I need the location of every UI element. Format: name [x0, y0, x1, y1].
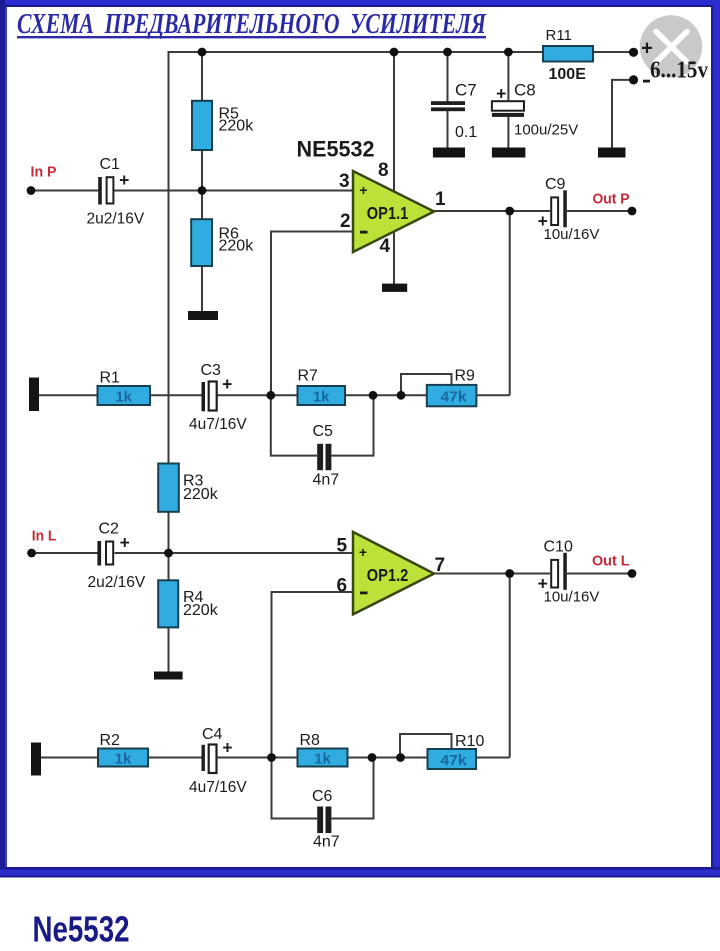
resistor R9 — [427, 385, 477, 406]
svg-text:C10: C10 — [544, 539, 573, 556]
svg-text:1k: 1k — [115, 751, 132, 768]
svg-text:C1: C1 — [100, 156, 121, 173]
svg-text:Ne5532: Ne5532 — [33, 909, 130, 950]
node OP1.1 feedback junction — [505, 207, 514, 216]
svg-text:2: 2 — [340, 211, 351, 232]
wire pin 2 loop to C3/R7 node — [271, 232, 353, 396]
node rail-C7 junction — [443, 48, 452, 57]
label C1 value — [87, 156, 145, 228]
close button — [640, 15, 702, 77]
resistor R1 — [98, 386, 151, 406]
svg-text:4n7: 4n7 — [313, 834, 340, 851]
frame left — [0, 0, 5, 877]
wire C8 branch upper — [507, 52, 509, 102]
capacitor C10 — [538, 553, 567, 594]
svg-text:4n7: 4n7 — [313, 472, 340, 489]
wire pin 6 loop to C4/R8 node — [272, 592, 354, 758]
svg-text:+: + — [359, 544, 367, 560]
capacitor C4 — [202, 737, 233, 773]
label C5 value — [313, 423, 340, 489]
svg-text:4u7/16V: 4u7/16V — [189, 416, 247, 433]
resistor R6 — [191, 219, 212, 266]
svg-text:+: + — [222, 737, 232, 757]
wire output OP1.2 to C10 — [434, 573, 550, 575]
frame bottom — [0, 867, 720, 870]
frame right — [711, 7, 713, 867]
wire C8 branch lower — [507, 117, 509, 149]
node R3-R4 bias junction — [164, 549, 173, 558]
svg-text:OP1.1: OP1.1 — [367, 203, 409, 223]
svg-text:220k: 220k — [219, 118, 255, 135]
label minus terminal — [643, 80, 650, 83]
wire minus terminal branch — [612, 80, 630, 148]
node Out P terminal — [628, 207, 637, 216]
svg-text:In L: In L — [32, 527, 57, 544]
capacitor C3 — [202, 374, 233, 411]
wire C6 loop right — [332, 758, 374, 819]
svg-text:2u2/16V: 2u2/16V — [88, 574, 146, 591]
wire In P row C1 to pin 3 — [114, 190, 353, 192]
resistor R5 — [192, 101, 212, 150]
ground under R6 — [188, 311, 218, 320]
svg-text:C8: C8 — [514, 81, 536, 100]
label C7 value — [455, 81, 477, 142]
svg-text:R11: R11 — [546, 27, 572, 44]
svg-text:2u2/16V: 2u2/16V — [87, 211, 145, 228]
svg-text:In P: In P — [31, 164, 57, 181]
node R7-R9 junction b — [397, 391, 406, 400]
wire R1 row left of C3 — [39, 394, 202, 396]
node In P terminal — [27, 186, 36, 195]
capacitor C1 — [98, 170, 129, 205]
label R4 value — [183, 589, 219, 619]
label C2 value — [88, 521, 146, 592]
resistor R2 — [98, 749, 148, 768]
node minus supply terminal — [629, 75, 638, 84]
svg-text:1k: 1k — [313, 389, 330, 406]
ground under R4 — [154, 672, 183, 680]
node C3-R7 junction — [266, 391, 275, 400]
capacitor C2 — [97, 533, 130, 566]
label C8 value — [514, 81, 578, 139]
title СХЕМА ПРЕДВАРИТЕЛЬНОГО УСИЛИТЕЛЯ — [17, 8, 487, 40]
wire In L row left of C2 — [32, 552, 98, 554]
input terminal bar right channel — [29, 378, 39, 412]
node rail-C8 junction — [504, 48, 513, 57]
node rail-R5 junction — [198, 48, 207, 57]
wire feedback vertical OP1.2 — [509, 574, 511, 758]
wire R2 row C4 to feedback column — [217, 757, 510, 759]
wire C7 branch lower — [447, 111, 449, 149]
label C9 value — [544, 176, 600, 243]
svg-text:R10: R10 — [455, 733, 484, 750]
wire R1 row C3 to feedback column — [217, 394, 510, 396]
label C4 value — [189, 726, 247, 796]
resistor R4 — [158, 580, 178, 627]
node R8-R10 junction b — [396, 753, 405, 762]
node R7-R9 junction a — [369, 391, 378, 400]
wire C9 to Out P — [567, 210, 632, 212]
svg-text:C2: C2 — [99, 521, 120, 538]
node OP1.2 feedback junction — [505, 569, 514, 578]
wire In P row left of C1 — [31, 190, 99, 192]
svg-text:+: + — [119, 170, 129, 190]
svg-text:3: 3 — [339, 171, 350, 192]
svg-text:100u/25V: 100u/25V — [514, 122, 578, 139]
ground under pin 4 — [382, 284, 407, 292]
svg-text:220k: 220k — [183, 602, 219, 619]
svg-text:7: 7 — [435, 555, 446, 576]
svg-text:0.1: 0.1 — [455, 124, 477, 141]
svg-text:NE5532: NE5532 — [297, 137, 375, 162]
node In L terminal — [27, 549, 36, 558]
svg-text:Out L: Out L — [592, 553, 630, 570]
svg-text:C6: C6 — [312, 788, 333, 805]
node Out L terminal — [628, 569, 637, 578]
svg-text:C4: C4 — [202, 726, 223, 743]
wire C10 to Out L — [567, 573, 632, 575]
svg-text:6: 6 — [337, 576, 348, 597]
svg-text:220k: 220k — [183, 486, 219, 503]
resistor R11 — [543, 46, 593, 62]
wire R2 row left of C4 — [41, 757, 202, 759]
svg-text:4: 4 — [380, 236, 391, 257]
svg-text:100E: 100E — [549, 66, 587, 83]
svg-text:6...15v: 6...15v — [650, 58, 708, 84]
svg-text:1: 1 — [435, 189, 446, 210]
wire feedback vertical OP1.1 — [509, 211, 511, 395]
ground under C7 — [433, 148, 465, 158]
node R5-R6 bias junction — [198, 186, 207, 195]
wire R9 top loop — [401, 374, 452, 395]
resistor R7 — [298, 386, 346, 406]
capacitor C6 — [317, 807, 331, 834]
svg-text:Out P: Out P — [593, 191, 630, 208]
svg-text:R2: R2 — [100, 732, 121, 749]
ground under minus terminal — [598, 148, 626, 158]
svg-text:СХЕМА ПРЕДВАРИТЕЛЬНОГО УСИЛИ: СХЕМА ПРЕДВАРИТЕЛЬНОГО УСИЛИТЕЛЯ — [17, 8, 487, 40]
svg-text:8: 8 — [378, 160, 389, 181]
resistor R10 — [428, 749, 477, 769]
svg-text:C9: C9 — [545, 176, 566, 193]
svg-text:C5: C5 — [313, 423, 334, 440]
capacitor C7 — [431, 101, 465, 111]
svg-text:47k: 47k — [441, 389, 468, 406]
svg-text:1k: 1k — [314, 751, 331, 768]
svg-text:5: 5 — [337, 535, 348, 556]
label R6 value — [219, 226, 255, 255]
op-amp U2 OP1.2 — [353, 532, 434, 615]
svg-text:220k: 220k — [219, 238, 255, 255]
wire In L row C2 to pin 5 — [115, 552, 354, 554]
wire C6 loop left — [272, 758, 318, 819]
ground under C8 — [492, 148, 526, 158]
svg-text:4u7/16V: 4u7/16V — [189, 779, 247, 796]
svg-text:C3: C3 — [201, 362, 222, 379]
node rail-pin8 junction — [390, 48, 399, 57]
input terminal bar left channel — [31, 743, 41, 776]
op-amp U1 OP1.1 — [353, 171, 434, 252]
wire C7 branch upper — [447, 52, 449, 102]
svg-text:R1: R1 — [100, 370, 121, 387]
label C10 value — [544, 539, 600, 606]
svg-text:47k: 47k — [441, 752, 468, 769]
svg-text:+: + — [641, 38, 653, 60]
label C3 value — [189, 362, 247, 433]
svg-text:R8: R8 — [300, 732, 321, 749]
svg-text:1k: 1k — [115, 389, 132, 406]
svg-text:+: + — [222, 374, 232, 394]
svg-text:C7: C7 — [455, 81, 477, 100]
svg-text:+: + — [120, 533, 130, 553]
wire R10 top loop — [400, 734, 452, 758]
label R5 value — [219, 106, 255, 135]
svg-text:+: + — [359, 182, 367, 198]
capacitor C8 — [492, 84, 524, 117]
wire C5 loop left — [271, 395, 317, 455]
resistor R8 — [298, 749, 348, 768]
wire output OP1.1 to C9 — [434, 210, 550, 212]
svg-text:10u/16V: 10u/16V — [544, 589, 600, 606]
frame top — [0, 0, 720, 5]
capacitor C5 — [317, 444, 331, 470]
wire pin 8 and pin 4 vertical — [393, 52, 395, 284]
label R3 value — [183, 473, 219, 504]
svg-text:10u/16V: 10u/16V — [544, 226, 600, 243]
svg-text:+: + — [496, 84, 506, 104]
capacitor C9 — [538, 190, 567, 231]
node C4-R8 junction — [267, 753, 276, 762]
wire C5 loop right — [332, 395, 374, 455]
svg-text:R9: R9 — [455, 368, 476, 385]
svg-text:OP1.2: OP1.2 — [367, 565, 409, 585]
wire top supply rail — [169, 51, 630, 53]
label C6 value — [312, 788, 340, 851]
node R8-R10 junction a — [368, 753, 377, 762]
resistor R3 — [158, 464, 179, 512]
node plus supply terminal — [629, 48, 638, 57]
wire V+ vertical feeding R3/R4 divider — [168, 51, 170, 672]
wire R5/R6 divider column — [201, 52, 203, 311]
svg-text:R7: R7 — [298, 368, 319, 385]
